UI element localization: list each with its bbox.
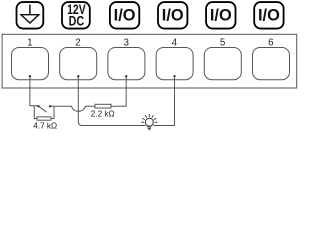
switch blade (open) xyxy=(39,106,47,112)
svg-text:I/O: I/O xyxy=(162,6,184,24)
switch contact left xyxy=(37,105,39,107)
terminal 2 xyxy=(60,48,97,80)
terminal 3 xyxy=(108,48,145,80)
I/O icon (pin 3 symbol) xyxy=(110,2,139,29)
svg-text:2: 2 xyxy=(75,37,80,48)
terminal 6 xyxy=(253,48,290,80)
I/O icon (pin 4 symbol) xyxy=(158,2,187,29)
junction dot terminal 1 xyxy=(29,75,31,77)
wire from terminal 2 down to lamp xyxy=(78,77,145,126)
resistor 2.2 kOhm xyxy=(95,104,111,108)
ground icon (pin 1 symbol) xyxy=(17,2,44,29)
parallel branch left lead xyxy=(34,106,37,118)
svg-text:DC: DC xyxy=(69,14,85,30)
junction dot terminal 4 xyxy=(173,75,175,77)
terminal block outline xyxy=(2,34,297,88)
svg-text:3: 3 xyxy=(123,37,129,48)
I/O icon (pin 5 symbol) xyxy=(206,2,235,29)
I/O icon (pin 6 symbol) xyxy=(254,2,283,29)
junction dot terminal 2 xyxy=(77,75,79,77)
svg-text:I/O: I/O xyxy=(114,6,136,24)
svg-text:4: 4 xyxy=(172,37,178,48)
12V DC supply icon (pin 2 symbol) xyxy=(62,2,90,30)
terminal 1 xyxy=(12,48,49,80)
junction dot terminal 3 xyxy=(125,75,127,77)
svg-text:I/O: I/O xyxy=(258,6,280,24)
svg-text:5: 5 xyxy=(220,37,226,48)
wire from lamp to terminal 4 xyxy=(153,77,174,126)
switch contact right xyxy=(49,105,51,107)
svg-text:6: 6 xyxy=(268,37,274,48)
svg-text:I/O: I/O xyxy=(210,6,232,24)
lamp bulb xyxy=(141,114,157,130)
wire from terminal 1 to switch xyxy=(30,77,39,106)
svg-text:2.2 kΩ: 2.2 kΩ xyxy=(91,109,115,118)
wire from switch right contact with hop over terminal 2 wire xyxy=(50,106,95,111)
wire from resistor 2.2k to terminal 3 xyxy=(111,77,126,106)
resistor 4.7 kOhm xyxy=(37,117,51,120)
parallel branch right lead xyxy=(51,106,54,118)
svg-text:1: 1 xyxy=(27,37,32,48)
terminal 5 xyxy=(204,48,241,80)
terminal 4 xyxy=(156,48,193,80)
svg-text:4.7 kΩ: 4.7 kΩ xyxy=(33,122,57,131)
